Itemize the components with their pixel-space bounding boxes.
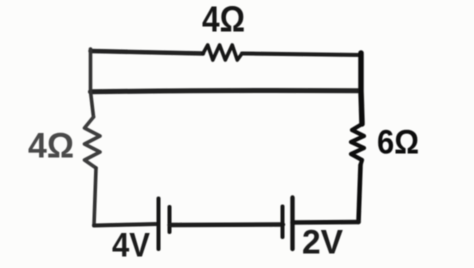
wire left vertical lower segment [94,168,96,226]
wire top-right horizontal segment [242,54,361,56]
svg-text:2V: 2V [302,224,343,262]
resistor R1 4ohm (top) zigzag [203,45,242,60]
battery B2 2V short plate [281,207,285,238]
wire bottom-middle segment [170,222,284,227]
wire left vertical upper segment [91,49,94,117]
wire middle horizontal (node between parallel branches) [91,90,362,91]
resistor R3 6ohm (right) zigzag [351,124,364,165]
wire bottom-right segment [293,220,359,225]
wire right vertical upper segment [361,53,362,124]
resistor R2 4ohm (left) zigzag [85,117,101,168]
svg-text:4V: 4V [112,227,150,265]
svg-text:6Ω: 6Ω [377,124,419,162]
svg-text:4Ω: 4Ω [202,0,245,40]
svg-text:4Ω: 4Ω [28,127,74,166]
wire bottom-left segment [94,224,158,226]
battery B1 4V short plate [168,207,172,232]
battery B2 2V long plate [290,198,294,250]
battery B1 4V long plate [157,199,161,250]
wire right vertical lower segment [359,165,361,222]
wire top-left horizontal segment [91,51,204,54]
